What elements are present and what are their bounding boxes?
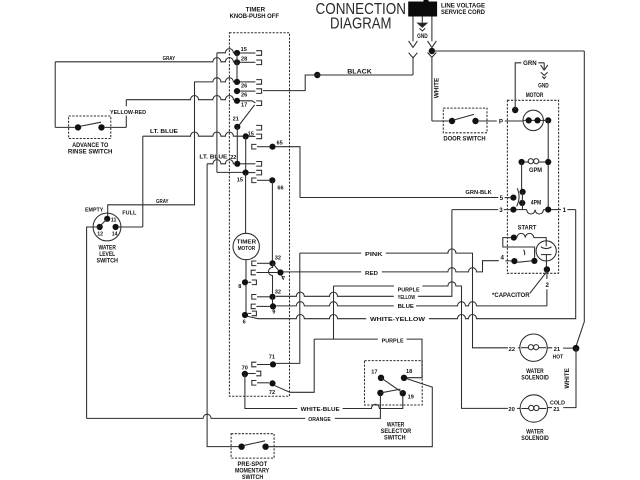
svg-text:26: 26	[241, 84, 247, 90]
svg-text:18: 18	[406, 369, 412, 375]
svg-text:4: 4	[500, 254, 504, 261]
svg-text:KNOB-PUSH OFF: KNOB-PUSH OFF	[230, 13, 280, 20]
wire WHITE-YELLOW (6 to motor 1)	[248, 315, 367, 319]
svg-text:DOOR SWITCH: DOOR SWITCH	[443, 136, 486, 143]
svg-text:GRN: GRN	[523, 60, 537, 67]
wire 15b-15c column	[245, 136, 247, 172]
svg-text:MOTOR: MOTOR	[238, 246, 256, 252]
terminal 8	[242, 279, 248, 285]
svg-text:SWITCH: SWITCH	[384, 435, 406, 442]
wire door switch to motor P	[479, 120, 524, 122]
wire white neutral down to cold	[563, 348, 576, 407]
4PM winding row 3	[510, 207, 516, 213]
svg-text:32: 32	[275, 256, 281, 262]
svg-text:FULL: FULL	[122, 211, 136, 217]
wire EMPTY 12 down to ORANGE	[87, 227, 100, 418]
node junction HOT 21	[573, 345, 580, 352]
wire YELLOW (32b to motor 3)	[276, 292, 394, 296]
svg-text:TIMER: TIMER	[237, 240, 256, 246]
svg-text:11: 11	[111, 218, 117, 224]
svg-text:15: 15	[237, 178, 243, 184]
svg-text:GRAY: GRAY	[156, 199, 169, 205]
svg-text:*CAPACITOR: *CAPACITOR	[492, 292, 530, 299]
svg-text:WHITE: WHITE	[564, 368, 571, 389]
node right of motor circle	[545, 117, 551, 123]
advance to rinse switch box	[69, 116, 111, 139]
svg-text:COLD: COLD	[550, 400, 565, 406]
terminal 15 (top)	[234, 50, 240, 56]
wire GRAY loop (water level 11 to timer 26)	[108, 78, 234, 219]
wire BLUE (9 to capacitor 2)	[276, 302, 394, 306]
svg-text:17: 17	[241, 102, 247, 108]
svg-text:LINE VOLTAGE: LINE VOLTAGE	[441, 4, 485, 10]
svg-text:GND: GND	[538, 82, 549, 89]
svg-text:72: 72	[269, 390, 275, 396]
wire timer motor down to 8 and 6	[245, 260, 247, 315]
svg-text:P: P	[499, 119, 503, 126]
motor box	[507, 100, 558, 273]
wire pre-spot to selector 18 lever	[269, 378, 433, 447]
capacitor circle	[536, 241, 556, 261]
title CONNECTION DIAGRAM	[316, 1, 407, 32]
svg-text:PURPLE: PURPLE	[398, 287, 420, 293]
svg-text:65: 65	[277, 140, 283, 146]
water level switch circle	[93, 213, 121, 241]
svg-text:ORANGE: ORANGE	[308, 417, 331, 423]
terminal 32b	[252, 295, 257, 300]
terminal 65	[252, 144, 257, 149]
svg-text:GND: GND	[417, 33, 428, 40]
cold water solenoid	[520, 395, 547, 422]
timer motor circle	[233, 233, 259, 259]
terminal 17	[234, 98, 240, 104]
line voltage service cord plug	[408, 0, 437, 17]
wire 65 to motor 5 (GRN-BLK)	[276, 147, 300, 198]
wire BLACK from junction node to timer	[314, 72, 320, 78]
svg-text:70: 70	[242, 366, 248, 372]
terminal 9	[251, 304, 256, 309]
wire 66 down to 32	[271, 180, 273, 263]
svg-text:8: 8	[238, 284, 241, 290]
svg-text:21: 21	[554, 347, 561, 353]
start circuit inner box	[503, 238, 535, 258]
svg-text:WHITE-BLUE: WHITE-BLUE	[301, 407, 340, 413]
svg-text:71: 71	[269, 355, 275, 361]
svg-text:HOT: HOT	[553, 354, 564, 360]
wire purple riser to mid purple	[333, 286, 335, 339]
svg-text:EMPTY: EMPTY	[85, 207, 103, 213]
svg-text:22: 22	[509, 347, 515, 353]
svg-text:DIAGRAM: DIAGRAM	[330, 15, 392, 32]
terminal 15c	[243, 170, 249, 176]
svg-text:LT. BLUE: LT. BLUE	[150, 129, 178, 135]
terminal 21 with lever to 17 contact	[234, 124, 240, 130]
plug right prong wire	[428, 17, 437, 122]
terminal 28	[234, 59, 240, 65]
motor speed switch (5 / 4PM)	[510, 195, 516, 201]
svg-text:SWITCH: SWITCH	[96, 258, 118, 265]
wire 71 PINK to hot solenoid 22	[276, 253, 300, 363]
svg-text:20: 20	[508, 407, 514, 413]
wire 32b-9 column	[272, 297, 274, 307]
wire LT. BLUE (water level 14 to timer 15b)	[143, 132, 243, 136]
svg-text:LT. BLUE: LT. BLUE	[199, 155, 227, 161]
svg-text:BLUE: BLUE	[398, 304, 414, 310]
wire ORANGE to water selector	[87, 414, 306, 418]
wire 15c to timer motor	[245, 173, 247, 234]
GPM winding	[519, 159, 525, 165]
svg-text:17: 17	[371, 370, 377, 376]
svg-text:1: 1	[563, 207, 567, 214]
svg-text:14: 14	[112, 231, 118, 237]
node junction at right prong	[429, 48, 435, 54]
svg-text:GRN-BLK: GRN-BLK	[465, 190, 492, 196]
svg-text:2: 2	[545, 282, 549, 289]
svg-text:PINK: PINK	[365, 252, 384, 258]
node capacitor terminal 2	[544, 266, 550, 272]
pre-spot momentary switch box	[231, 434, 274, 458]
terminal 72	[252, 381, 257, 386]
svg-text:9: 9	[272, 309, 275, 315]
wire PURPLE mid to cold solenoid 20	[334, 285, 395, 287]
svg-text:RED: RED	[365, 271, 378, 277]
terminal 6	[242, 312, 248, 318]
wire 3 to 1	[551, 209, 561, 211]
wire capacitor 2 down	[546, 270, 548, 280]
svg-text:START: START	[518, 226, 537, 232]
motor main winding circle	[523, 110, 543, 130]
svg-text:SOLENOID: SOLENOID	[521, 435, 549, 442]
svg-text:BLACK: BLACK	[347, 68, 372, 75]
terminal 32 (top)	[252, 261, 257, 266]
wire white to door switch	[432, 120, 449, 122]
wire LT. BLUE 2 (timer 22 down to pre-spot)	[207, 160, 234, 164]
terminal 22	[234, 161, 240, 167]
svg-text:12: 12	[97, 231, 103, 237]
svg-text:GPM: GPM	[529, 168, 542, 174]
lever 32 to 7	[273, 263, 281, 272]
svg-text:SWITCH: SWITCH	[242, 474, 264, 480]
wire 21-22 column	[236, 127, 238, 164]
plug left prong wire	[409, 17, 418, 76]
svg-text:4PM: 4PM	[531, 200, 541, 206]
svg-text:19: 19	[408, 394, 414, 400]
wire BLACK branch to timer contact 26b	[263, 75, 317, 91]
svg-text:WHITE: WHITE	[434, 78, 441, 99]
terminal 71	[252, 362, 257, 367]
start switch contacts	[511, 258, 517, 264]
svg-text:66: 66	[277, 185, 283, 191]
timer box	[229, 33, 289, 397]
svg-text:21: 21	[233, 117, 239, 123]
svg-text:28: 28	[241, 56, 247, 62]
ground symbol below plug	[418, 17, 427, 31]
terminal 70	[242, 371, 248, 377]
label LINE VOLTAGE SERVICE CORD	[441, 4, 486, 16]
svg-text:5: 5	[500, 195, 504, 202]
wire YELLOW-RED to timer 17	[125, 100, 127, 128]
start winding	[511, 235, 517, 241]
wire 72 to purple net	[275, 339, 314, 392]
wire 32-32b column with hop over 7 row	[269, 263, 273, 293]
wire feeder 15a down to 15c	[216, 53, 218, 173]
ground symbol GND (motor)	[541, 63, 548, 79]
label TIMER KNOB-PUSH OFF	[230, 7, 280, 21]
wire 15-28-26 column	[236, 53, 238, 82]
wire GRAY top to advance switch	[55, 58, 234, 62]
svg-text:WHITE-YELLOW: WHITE-YELLOW	[370, 317, 426, 323]
terminal 26b	[234, 88, 240, 94]
door switch contacts and lever	[449, 118, 455, 124]
wire top rail to right side	[434, 50, 584, 52]
door switch box	[443, 108, 487, 133]
terminal 7	[251, 270, 256, 275]
svg-text:SERVICE CORD: SERVICE CORD	[441, 10, 486, 16]
svg-text:RINSE SWITCH: RINSE SWITCH	[68, 149, 113, 156]
wire RED (7 to motor 4)	[284, 271, 362, 273]
svg-text:32: 32	[275, 290, 281, 296]
svg-text:YELLOW: YELLOW	[398, 295, 416, 301]
svg-text:6: 6	[243, 319, 246, 325]
svg-text:GRAY: GRAY	[163, 56, 176, 62]
hot water solenoid	[520, 334, 547, 361]
svg-text:26: 26	[241, 93, 247, 99]
wire GRN ground from motor	[512, 107, 518, 113]
svg-text:MOTOR: MOTOR	[526, 92, 544, 99]
svg-text:21: 21	[553, 407, 560, 413]
wire GPM left down to speed switch	[521, 162, 523, 189]
terminal 26	[234, 79, 240, 85]
svg-text:YELLOW-RED: YELLOW-RED	[110, 110, 146, 116]
water selector switch box	[365, 361, 423, 405]
wire motor right column	[547, 120, 549, 209]
svg-text:15: 15	[241, 47, 247, 53]
wire 70 to WHITE-BLUE to selector 19	[245, 374, 297, 409]
svg-text:SOLENOID: SOLENOID	[521, 374, 549, 381]
terminal 15b	[243, 133, 249, 139]
svg-text:PURPLE: PURPLE	[382, 338, 404, 344]
svg-text:3: 3	[499, 207, 503, 214]
wire right rail down	[576, 51, 584, 345]
terminal 66	[252, 178, 257, 183]
